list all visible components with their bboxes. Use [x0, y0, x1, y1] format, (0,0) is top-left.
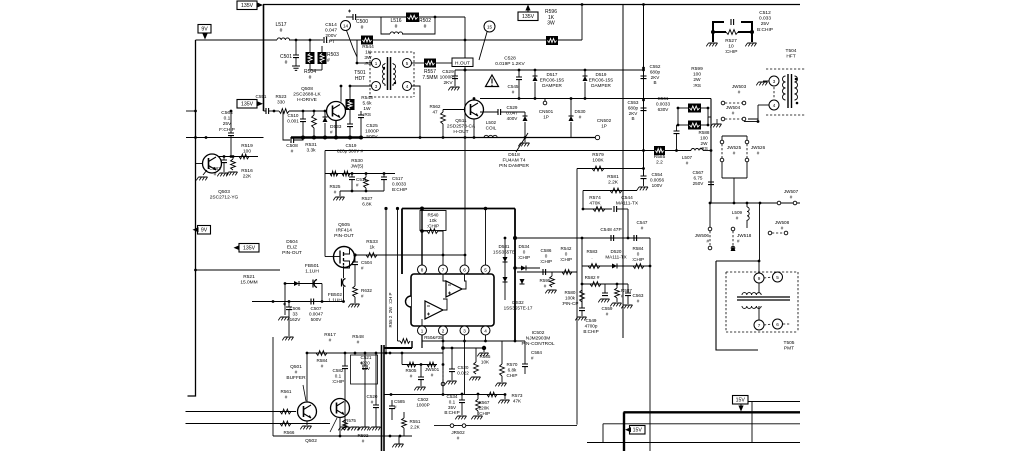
inductor L507: [665, 149, 711, 166]
wire R573 row: [384, 353, 506, 396]
wire yoke box: [716, 260, 760, 350]
resistor R566: [280, 421, 295, 435]
svg-text:R566: R566: [284, 430, 295, 435]
svg-text:Q502: Q502: [305, 438, 317, 444]
resistor R617: [324, 332, 336, 344]
label R530: [351, 158, 364, 170]
wire junction top rail: [581, 3, 584, 6]
jumper JW501: [425, 363, 445, 386]
wire pin2 stub: [442, 335, 444, 353]
wire T504 pin4 link: [744, 119, 759, 123]
inductor FB502: [328, 266, 346, 304]
transistor Q511: [447, 100, 484, 135]
capacitor C501: [280, 40, 300, 70]
capacitor C519: [337, 111, 364, 154]
capacitor C554: [637, 169, 665, 191]
svg-text:3: 3: [463, 328, 466, 333]
svg-text:C5200.022: C5200.022: [457, 365, 469, 375]
diode D530: [569, 97, 586, 137]
ic pin 5: [481, 265, 490, 274]
capacitor C529hv: [440, 69, 460, 90]
resistor R527b: [362, 174, 373, 207]
inductor L509: [732, 203, 749, 228]
wire pin5 drop: [484, 207, 488, 265]
capacitor C534: [444, 393, 466, 420]
transformer pin 15: [479, 21, 495, 60]
capacitor C522: [414, 365, 425, 391]
wire right box edge: [710, 99, 712, 204]
svg-text:C5100.001: C5100.001: [287, 113, 299, 123]
resistor R543 box: [346, 86, 374, 118]
svg-text:5: 5: [776, 275, 779, 280]
wire pin6 drop: [464, 255, 466, 265]
resistor R579: [577, 152, 645, 171]
capacitor C508: [283, 111, 303, 155]
resistor R581: [583, 174, 637, 209]
wire x650 drop: [649, 238, 652, 451]
svg-text:R5512.2K: R5512.2K: [410, 419, 421, 429]
wire R525 row: [325, 172, 395, 175]
label R527: [725, 38, 738, 55]
svg-text:1: 1: [421, 328, 424, 333]
capacitor C520c: [367, 353, 379, 415]
svg-text:C5290.047400V: C5290.047400V: [506, 105, 518, 121]
wire pin1 stub: [421, 335, 423, 348]
resistor R565: [469, 348, 491, 380]
voltage label 135V lower-left: [234, 244, 260, 253]
wire vertical rail x623: [622, 5, 624, 339]
resistor R595: [540, 272, 557, 293]
resistor R542: [560, 246, 572, 274]
diode D517: [533, 70, 565, 99]
svg-text:3: 3: [375, 84, 378, 89]
svg-text:7: 7: [758, 323, 761, 328]
resistor R531: [305, 111, 317, 154]
wire box B bottom right: [434, 424, 577, 441]
wire base row 1: [186, 411, 297, 413]
wire 135V lower stub: [194, 269, 280, 272]
transistor Q501: [286, 364, 316, 421]
warning triangle: [486, 75, 499, 87]
diode D531: [493, 237, 515, 300]
svg-text:9V: 9V: [201, 27, 208, 33]
wire 15V rail thin: [748, 402, 800, 443]
resistor R584b: [632, 246, 644, 268]
wire 135V left branch: [186, 136, 264, 139]
label D504: [282, 239, 302, 256]
svg-text:6: 6: [463, 267, 466, 272]
inductor L516: [381, 17, 435, 34]
wire rail y424: [603, 424, 800, 443]
svg-text:T505PMT: T505PMT: [784, 340, 795, 352]
label R588: [699, 130, 710, 151]
yoke pin b: [764, 272, 783, 282]
wire 15V rail thick: [624, 412, 801, 451]
svg-text:4: 4: [773, 103, 776, 108]
label R506: [424, 335, 444, 340]
svg-text:R567220K:CHIP: R567220K:CHIP: [478, 400, 490, 416]
hout label box: [452, 58, 473, 67]
wire C548 row: [514, 237, 650, 240]
resistor R573: [487, 392, 523, 403]
svg-text:15: 15: [487, 24, 493, 29]
resistor R574: [582, 195, 612, 211]
svg-text:5: 5: [484, 267, 487, 272]
wire vertical rail x643: [642, 3, 645, 176]
svg-text:C5610.0033630V: C5610.0033630V: [656, 96, 670, 112]
resistor R575: [343, 418, 357, 430]
ic pin 3: [460, 326, 469, 335]
wire H-DRIVE base feed: [264, 110, 267, 112]
svg-text:135V: 135V: [241, 3, 254, 9]
capacitor C585: [389, 399, 405, 420]
wire Q501 collector: [306, 352, 309, 402]
wire Q505 gate: [325, 256, 340, 258]
wire base row 2: [186, 423, 331, 425]
jumper JW506: [695, 202, 712, 250]
inductor L517: [275, 22, 289, 40]
resistor R592: [358, 433, 369, 443]
resistor R551: [402, 412, 421, 436]
jumper JW508: [768, 220, 789, 235]
capacitor C551: [256, 94, 279, 114]
wire Q503 collector: [218, 155, 258, 158]
transistor Q508: [327, 102, 346, 121]
transistor Q502: [305, 399, 349, 445]
heavy vertical bus pair: [382, 345, 385, 451]
ground Q503 emitter: [196, 170, 207, 180]
resistor R557: [422, 59, 452, 81]
capacitor C502: [416, 397, 429, 407]
svg-text:C5494700pB:CHIP: C5494700pB:CHIP: [583, 318, 598, 334]
svg-text:R582 #: R582 #: [585, 275, 600, 280]
ground C512 left: [706, 43, 717, 46]
svg-text:R5812.2K: R5812.2K: [607, 174, 619, 186]
voltage label 135V top-left: [237, 1, 263, 10]
wire jumper tops: [722, 136, 747, 140]
ic pin 7: [439, 265, 448, 274]
heavy link: [384, 339, 412, 348]
wire pin4 stub: [485, 335, 487, 341]
diode D518 body: [499, 112, 529, 169]
resistor R523: [276, 94, 327, 113]
capacitor C584: [522, 341, 542, 374]
transistor Q508 labels: [293, 86, 321, 103]
resistor R570: [495, 341, 518, 386]
capacitor C521: [351, 353, 378, 415]
wire right drop to H-OUT node: [464, 17, 467, 265]
svg-text:C5070.0047500V: C5070.0047500V: [309, 306, 323, 322]
yoke pin c: [754, 320, 764, 330]
wire stub left: [186, 110, 197, 113]
capacitor C586: [540, 248, 552, 275]
resistor R544: [357, 36, 374, 67]
damper bus: [480, 97, 711, 100]
jumper JW525: [720, 140, 741, 162]
diode FB501 row: [285, 263, 322, 288]
resistor R580: [562, 290, 585, 306]
wire Q508 collector: [340, 86, 342, 102]
ground Q501 emitter: [300, 421, 311, 429]
transistor Q503: [203, 154, 239, 201]
resistor R596: [545, 5, 582, 46]
diode D534: [513, 244, 540, 271]
label R599: [691, 66, 703, 89]
voltage label 9V lower-left: [193, 226, 211, 235]
yoke pin a: [754, 261, 764, 283]
svg-text:135V: 135V: [522, 14, 535, 20]
ground T504 pin3: [756, 81, 769, 85]
op-amp A: [443, 275, 466, 298]
wire R525 bottom: [333, 190, 384, 201]
svg-text:R50&#35;: R50&#35;: [424, 335, 444, 340]
resistor R548: [352, 334, 364, 346]
diode D520: [605, 249, 626, 269]
voltage label 9V: [198, 25, 211, 40]
resistor R588b: [677, 121, 710, 130]
wire 135V vertical rail: [263, 5, 265, 112]
wire vertical x760: [759, 203, 761, 261]
jumper JW526: [745, 140, 765, 162]
capacitor C500: [346, 10, 381, 31]
svg-text:R5276.8K: R5276.8K: [362, 196, 373, 206]
svg-text:9V: 9V: [201, 228, 208, 234]
ic pin 4: [481, 326, 490, 335]
ic pin 6: [460, 265, 469, 274]
resistor R533: [355, 239, 466, 257]
capacitor C563: [621, 284, 644, 308]
wire 9V feed: [196, 39, 278, 41]
voltage label 15V b: [625, 426, 645, 435]
svg-text:14: 14: [343, 23, 349, 28]
capacitor C552: [641, 64, 661, 85]
capacitor C564: [219, 110, 235, 157]
wire R544 to R596: [373, 39, 546, 41]
resistor R540 box: [420, 211, 446, 231]
resistor R587: [610, 283, 632, 307]
svg-text:C5120.03325VB:CHIP: C5120.03325VB:CHIP: [757, 10, 773, 33]
label C512: [757, 10, 773, 33]
voltage label 135V drive: [237, 100, 263, 109]
wire C514 branch: [320, 37, 361, 43]
svg-text:1: 1: [375, 61, 378, 66]
capacitor C529b: [480, 105, 518, 121]
svg-text:C548 47P: C548 47P: [600, 227, 621, 233]
yoke pin d: [764, 319, 790, 329]
capacitor C545: [508, 70, 522, 99]
svg-text:2: 2: [442, 328, 445, 333]
svg-text:R530JW(5): R530JW(5): [351, 158, 364, 170]
inductor L502: [484, 120, 497, 138]
capacitor C514 label: [325, 22, 337, 45]
diode D519: [583, 70, 614, 99]
ground D504 anode: [278, 282, 289, 320]
ground C512 right: [745, 43, 756, 46]
wire L517 to C514: [289, 39, 320, 42]
capacitor C523: [347, 110, 379, 140]
svg-text:R55 2 2W :CH P: R55 2 2W :CH P: [388, 292, 393, 327]
svg-text:H.OUT: H.OUT: [455, 61, 470, 67]
resistor R502: [381, 13, 465, 30]
wire Q502 emitter: [339, 418, 342, 438]
wire rail y442: [587, 412, 800, 442]
diode C544: [614, 195, 639, 238]
ic pin 1: [418, 326, 427, 335]
svg-text:135V: 135V: [241, 102, 254, 108]
svg-text:9: 9: [758, 276, 761, 281]
resistor R516: [226, 157, 253, 180]
wire mid rail: [325, 149, 654, 152]
jumper JW504: [710, 105, 746, 127]
capacitor C507: [309, 299, 323, 322]
svg-text:8: 8: [421, 267, 424, 272]
ground D518: [518, 136, 529, 146]
yoke coils: [737, 283, 790, 320]
wire y203 rail: [711, 202, 800, 205]
svg-text:R5706.8kCHIP: R5706.8kCHIP: [507, 362, 518, 378]
resistor R632: [348, 286, 372, 307]
wire H-OUT row: [455, 69, 645, 72]
capacitor C510: [287, 111, 306, 138]
wire IC box right: [513, 209, 517, 342]
voltage label 15V a: [733, 396, 749, 412]
diode D533: [323, 111, 342, 138]
wire Q503 base: [196, 138, 204, 164]
wire pin3 stub: [464, 335, 466, 394]
svg-text:FB5011.1UH: FB5011.1UH: [305, 263, 319, 275]
yoke dashed box: [726, 272, 798, 332]
diode D518: [501, 111, 525, 113]
capacitor C561: [656, 96, 680, 151]
wire T501 pin1: [356, 62, 372, 65]
svg-text:3: 3: [773, 79, 776, 84]
svg-text:15V: 15V: [633, 428, 643, 434]
wire FB junction: [252, 284, 344, 303]
capacitor C547: [634, 220, 648, 241]
ic pin 8: [418, 265, 427, 274]
heavy emitter bus: [291, 136, 597, 140]
resistor R562: [430, 104, 465, 139]
resistor R503: [310, 46, 339, 70]
svg-text:C5021000P: C5021000P: [416, 397, 429, 407]
wire Q511 emitter: [473, 119, 476, 139]
diode DS32: [504, 279, 533, 310]
connector CN501: [539, 99, 554, 120]
resistor R588a: [677, 104, 710, 113]
svg-text:15V: 15V: [736, 398, 746, 404]
svg-text:C519: C519: [346, 143, 357, 148]
svg-text:4: 4: [484, 328, 487, 333]
transformer pin 14: [341, 21, 358, 58]
capacitor C511: [349, 174, 367, 192]
wire C586 row: [517, 271, 577, 273]
svg-text:R5313.3k: R5313.3k: [305, 142, 317, 154]
resistor R561: [280, 389, 292, 414]
wire R505 row: [389, 352, 443, 366]
wire under-ic row: [422, 340, 525, 343]
svg-text:L502COIL: L502COIL: [486, 120, 497, 130]
resistor R567: [471, 393, 490, 420]
svg-text:C5540.0056100V: C5540.0056100V: [650, 172, 664, 188]
wire mid-rail left corner: [324, 151, 326, 257]
jumper JW503: [721, 84, 746, 105]
resistor R525: [330, 171, 350, 194]
capacitor C506: [282, 302, 301, 341]
ic labels: [521, 330, 554, 347]
capacitor C559: [598, 284, 613, 316]
wire box B left: [273, 337, 412, 437]
resistor R606: [427, 362, 436, 367]
label T505: [784, 340, 795, 352]
capacitor C548: [600, 227, 621, 241]
connector CN502: [595, 118, 611, 140]
resistor R582: [582, 275, 628, 286]
svg-text:R5577.5MM: R5577.5MM: [422, 69, 437, 81]
wire R588 links: [678, 108, 711, 125]
svg-text:T501HDT: T501HDT: [354, 70, 366, 82]
resistor R584 label: [317, 358, 328, 368]
wire 135V top rail: [263, 4, 800, 6]
wire jumper bottoms: [722, 162, 747, 203]
wire left vertical bus: [188, 40, 196, 396]
capacitor C583: [209, 157, 228, 178]
transformer T501: [354, 52, 414, 97]
grounds under caps: [338, 415, 380, 430]
voltage label 135V mid-top: [518, 5, 538, 21]
svg-text:C551: C551: [256, 94, 267, 99]
wire Q511 collector: [473, 97, 476, 100]
ground pin area: [477, 348, 488, 356]
op-amp IC502 box: [406, 274, 495, 326]
ic pin 2: [439, 326, 448, 335]
resistor R504: [304, 40, 316, 81]
capacitor C549: [575, 302, 598, 334]
jumper JW518: [731, 227, 752, 251]
capacitor C528 label: [495, 56, 525, 68]
transformer T504: [766, 48, 806, 115]
capacitor C517: [381, 174, 407, 192]
jumper R521: [240, 274, 257, 286]
svg-text:5: 5: [406, 61, 409, 66]
mosfet Q505: [334, 222, 355, 268]
capacitor C553: [628, 99, 647, 122]
wire T501 pin4 drop: [412, 86, 422, 139]
resistor R505: [406, 362, 417, 378]
label R552 rotated: [388, 292, 393, 327]
wire collector row: [307, 351, 390, 356]
svg-text:7: 7: [442, 267, 445, 272]
wire vertical x397: [396, 207, 399, 341]
wire box right edge x577: [576, 169, 578, 425]
wire Q508 emitter: [335, 121, 337, 138]
capacitor C504: [352, 253, 372, 286]
resistor R585: [654, 146, 666, 166]
wire T504 pin4: [758, 105, 769, 122]
svg-text:135V: 135V: [243, 246, 256, 252]
capacitor C512 bracket: [711, 19, 754, 42]
svg-text:T504HFT: T504HFT: [786, 48, 797, 60]
wire x582 drop: [581, 238, 584, 308]
svg-text:R579100K: R579100K: [592, 152, 604, 164]
capacitor C582: [332, 353, 348, 415]
svg-text:6: 6: [776, 322, 779, 327]
resistor R519: [239, 143, 253, 159]
svg-text:4: 4: [406, 84, 409, 89]
op-amp B: [422, 299, 447, 326]
capacitor C520b: [441, 346, 486, 385]
capacitor C567: [693, 149, 714, 203]
resistor R540 zig: [420, 209, 443, 266]
